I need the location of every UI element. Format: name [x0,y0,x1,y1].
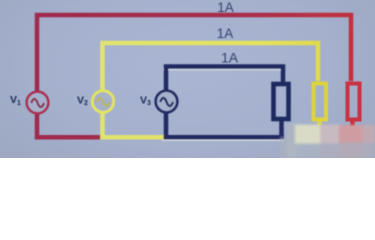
svg-text:1A: 1A [221,49,239,65]
svg-text:V3: V3 [140,95,151,108]
svg-text:1A: 1A [217,26,234,41]
svg-text:1A: 1A [217,0,234,15]
svg-text:V2: V2 [77,95,88,108]
svg-text:V1: V1 [10,94,21,107]
